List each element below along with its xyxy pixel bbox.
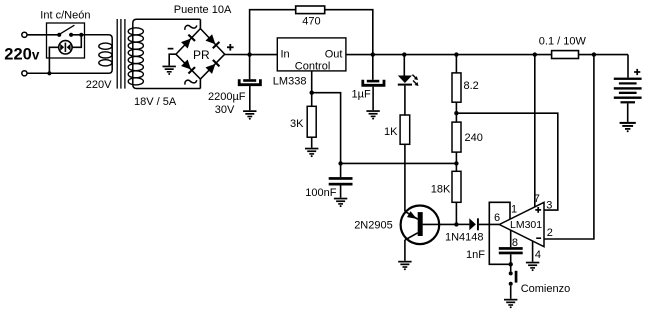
wire rail to battery bbox=[627, 55, 629, 78]
wire pin4 stem bbox=[532, 241, 534, 262]
capacitor C3 100nF bbox=[329, 163, 353, 197]
regulator U1 LM338 box bbox=[277, 38, 346, 71]
junction neon-neutral bbox=[47, 71, 51, 75]
node 240/18K bbox=[454, 161, 458, 165]
diode D2 1N4148 bbox=[469, 218, 499, 230]
wire control stem bbox=[311, 71, 313, 93]
minus input mark bbox=[536, 237, 541, 239]
ground battery bbox=[620, 122, 636, 132]
wire pin2 loop bbox=[544, 55, 594, 239]
svg-text:Comienzo: Comienzo bbox=[521, 283, 571, 295]
node 8.2 bbox=[454, 52, 458, 56]
ground 2200uF bbox=[243, 110, 256, 119]
wire base lead bbox=[423, 223, 457, 225]
LED D1 bbox=[398, 55, 412, 115]
svg-text:4: 4 bbox=[535, 249, 541, 261]
wire neon right bbox=[72, 35, 81, 48]
ground bridge bbox=[169, 54, 176, 65]
node input (junction 2200uF / 470) bbox=[247, 52, 251, 56]
bridge diode top-left bbox=[181, 34, 196, 49]
svg-text:Out: Out bbox=[325, 49, 343, 61]
node pin2/0.1 bbox=[592, 52, 596, 56]
svg-text:Control: Control bbox=[295, 60, 330, 72]
svg-text:220v: 220v bbox=[4, 45, 40, 63]
svg-text:1: 1 bbox=[511, 204, 517, 216]
AC mark bottom bbox=[185, 80, 197, 84]
ground 3K bbox=[305, 148, 318, 157]
minus sign bridge bbox=[168, 48, 174, 50]
svg-text:30V: 30V bbox=[215, 104, 235, 116]
svg-text:18V / 5A: 18V / 5A bbox=[134, 96, 177, 108]
wire pin8 stem bbox=[510, 230, 512, 247]
pushbutton Comienzo bbox=[509, 264, 518, 299]
wire control to 100nF node bbox=[312, 93, 341, 164]
node 100nF bbox=[338, 161, 342, 165]
ground 100nF bbox=[334, 198, 347, 207]
wire neon left bbox=[49, 47, 58, 73]
svg-text:100nF: 100nF bbox=[305, 187, 336, 199]
svg-text:Int c/Neón: Int c/Neón bbox=[40, 9, 90, 21]
LED arrows bbox=[412, 75, 418, 86]
node 1uF bbox=[371, 52, 375, 56]
svg-text:3K: 3K bbox=[290, 118, 304, 130]
ground pin4 bbox=[526, 262, 539, 271]
capacitor C1 2200uF bbox=[239, 55, 260, 111]
wire bridge top stub bbox=[199, 19, 201, 28]
svg-text:1N4148: 1N4148 bbox=[445, 232, 484, 244]
node control bbox=[310, 91, 314, 95]
transistor Q1 2N2905 bbox=[401, 206, 440, 261]
resistor R5 240 bbox=[452, 122, 461, 171]
svg-text:240: 240 bbox=[465, 132, 483, 144]
node pin7 bbox=[533, 52, 537, 56]
wire base node to diode bbox=[456, 223, 469, 225]
capacitor C2 1uF bbox=[363, 55, 384, 111]
svg-text:2200µF: 2200µF bbox=[208, 91, 246, 103]
AC mark top bbox=[185, 25, 197, 29]
neon lamp bbox=[59, 41, 72, 54]
ground comienzo bbox=[504, 299, 517, 308]
svg-text:470: 470 bbox=[302, 15, 320, 27]
svg-text:LM338: LM338 bbox=[273, 75, 307, 87]
wire node row bbox=[341, 162, 457, 164]
svg-text:8.2: 8.2 bbox=[464, 80, 479, 92]
svg-text:7: 7 bbox=[534, 193, 540, 205]
wire bridge bottom stub bbox=[199, 79, 201, 89]
node LED bbox=[402, 52, 406, 56]
wire pin1 compensation loop bbox=[489, 202, 510, 264]
node pin8/comienzo bbox=[509, 262, 513, 266]
terminal N bbox=[22, 71, 27, 76]
bridge diode top-right bbox=[205, 34, 220, 49]
capacitor C4 1nF bbox=[499, 247, 523, 264]
bridge diode bottom-right bbox=[205, 59, 220, 74]
svg-text:1K: 1K bbox=[384, 126, 398, 138]
transformer secondary winding bbox=[128, 19, 200, 88]
svg-text:2: 2 bbox=[547, 227, 553, 239]
transformer core bbox=[117, 19, 125, 89]
svg-text:LM301: LM301 bbox=[510, 219, 542, 231]
node base bbox=[454, 222, 458, 226]
wire output rail bbox=[346, 54, 628, 56]
plus input mark bbox=[535, 207, 541, 213]
resistor R2 3K bbox=[307, 93, 316, 148]
svg-text:Puente 10A: Puente 10A bbox=[174, 4, 232, 16]
wire input rail bbox=[225, 54, 278, 56]
svg-text:0.1 / 10W: 0.1 / 10W bbox=[539, 36, 587, 48]
svg-text:220V: 220V bbox=[86, 79, 112, 91]
node 8.2/240 bbox=[454, 111, 458, 115]
plus sign bridge bbox=[227, 44, 234, 51]
svg-text:6: 6 bbox=[494, 212, 500, 224]
junction switch/neon bbox=[79, 33, 83, 37]
svg-text:1nF: 1nF bbox=[466, 249, 485, 261]
bridge rectifier PR diamond bbox=[176, 29, 225, 79]
wire live to switch box bbox=[27, 34, 47, 36]
resistor 470 bbox=[296, 6, 325, 14]
resistor R6 18K bbox=[452, 171, 461, 224]
svg-text:PR: PR bbox=[193, 48, 210, 62]
svg-text:In: In bbox=[281, 49, 290, 61]
wire pin7 bbox=[534, 55, 536, 207]
svg-text:2N2905: 2N2905 bbox=[354, 219, 393, 231]
terminal L bbox=[22, 32, 27, 37]
wire pin3 loop bbox=[456, 113, 557, 210]
ground 1uF bbox=[366, 110, 379, 119]
resistor R4 8.2 bbox=[452, 55, 461, 123]
wire 1K to transistor bbox=[404, 144, 406, 211]
switch S1 bbox=[47, 25, 85, 37]
transformer primary winding + neutral wire bbox=[27, 35, 112, 74]
op-amp U2 LM301 triangle bbox=[499, 202, 544, 246]
svg-text:1µF: 1µF bbox=[352, 89, 371, 101]
plus sign battery bbox=[634, 69, 640, 75]
switch box S1 bbox=[47, 23, 85, 58]
resistor R7 0.1/10W bbox=[552, 51, 579, 59]
svg-text:3: 3 bbox=[546, 200, 552, 212]
resistor R3 1K bbox=[400, 115, 410, 144]
battery B1 bbox=[614, 78, 642, 122]
wire 470 loop bbox=[250, 10, 373, 55]
ground transistor bbox=[398, 261, 411, 270]
svg-text:18K: 18K bbox=[431, 183, 451, 195]
bridge diode bottom-left bbox=[181, 60, 196, 75]
